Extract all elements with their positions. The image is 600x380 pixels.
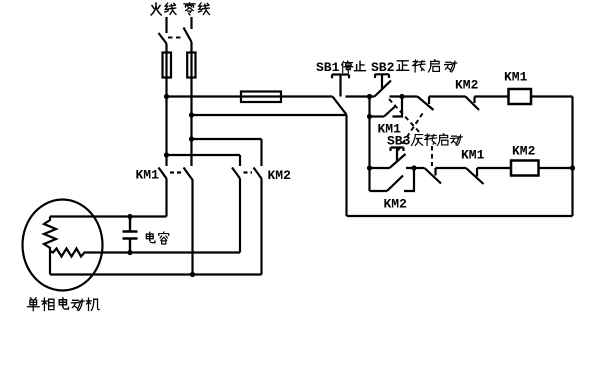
push button SB2 actuator <box>375 74 389 89</box>
push button SB1 actuator <box>332 75 349 97</box>
label SB3反转启动 <box>387 134 462 149</box>
wire coil KM2 to right bus <box>539 167 573 169</box>
label KM2 (main) <box>268 168 292 183</box>
svg-text:SB1: SB1 <box>316 60 340 75</box>
svg-text:SB2: SB2 <box>371 60 395 75</box>
label SB2正转启动 <box>371 60 457 75</box>
label 单相电动机 <box>27 298 99 311</box>
node neutral line3 <box>189 136 194 141</box>
wire KM2-left down <box>239 179 241 253</box>
wire bus segment <box>429 95 466 97</box>
wire KM2-left stub <box>239 155 241 166</box>
wire KM1-left down <box>165 179 167 217</box>
wire SB3-branch vertical <box>368 97 370 192</box>
wire KM1-right down <box>192 179 193 275</box>
svg-text:KM2: KM2 <box>384 197 408 212</box>
wire latch2 row right <box>404 168 414 191</box>
wire neutral to KM2-right <box>192 138 262 140</box>
wire bus to coil KM1 <box>475 95 509 97</box>
wire row2 after SB3 <box>406 167 425 169</box>
wire neutral vertical <box>190 42 192 166</box>
label KM2 (latch) <box>384 197 408 212</box>
capacitor C branch <box>123 217 138 253</box>
wire latch1 row <box>370 115 385 117</box>
svg-text:KM1: KM1 <box>461 148 485 163</box>
push button SB3 NO blade <box>390 154 406 168</box>
label KM1 (interlock row2) <box>461 148 485 163</box>
wire row2 segment <box>436 167 467 169</box>
motor aux winding zigzag <box>50 249 88 257</box>
node capacitor top <box>127 214 132 219</box>
label KM2 (interlock) <box>455 78 479 93</box>
coil KM2 <box>511 161 539 176</box>
label 火线 (live wire) <box>151 3 176 15</box>
node live line4 <box>164 152 169 157</box>
switch QS pole L blade <box>159 33 167 44</box>
wire neutral to control <box>192 114 347 116</box>
node latch KM1 tap <box>399 94 404 99</box>
fuse FU3 (control) <box>241 92 281 103</box>
label KM1 (main) <box>136 168 160 183</box>
switch QS pole L stub <box>165 17 167 33</box>
wire bus after SB1 <box>346 95 375 97</box>
wire coil KM1 to right bus <box>531 95 573 97</box>
wire row2 left <box>370 167 390 169</box>
push button SB1 NC blade <box>333 97 347 115</box>
node right bus row2 <box>570 165 575 170</box>
node capacitor bottom <box>127 250 132 255</box>
fuse FU1 (live) <box>163 53 172 78</box>
node bottom junction <box>190 272 195 277</box>
label 电容 <box>146 232 168 244</box>
push button SB3 actuator <box>391 148 404 162</box>
contact KM1 main right <box>184 168 192 179</box>
contact KM2 main left <box>232 168 240 179</box>
contact SB2 NC (linked) blade <box>425 168 442 184</box>
KM1 main link (dashed) <box>170 171 181 173</box>
wire live to KM2 pair <box>167 154 241 156</box>
mechanical link SB3 to NC (dashed) <box>398 111 425 151</box>
wire motor bottom line <box>50 273 262 275</box>
push button SB2 NO blade <box>375 81 392 97</box>
label KM1 (coil) <box>504 70 528 85</box>
switch QS mechanical link (dashed) <box>168 37 182 39</box>
wire KM2-right stub <box>260 139 262 166</box>
svg-text:KM1: KM1 <box>136 168 160 183</box>
svg-text:KM2: KM2 <box>455 78 479 93</box>
wire motor top line <box>50 215 167 217</box>
node live-bus junction <box>164 94 169 99</box>
node row2 tap left <box>367 165 372 170</box>
label KM1 (latch) <box>378 122 402 137</box>
wire bus after SB2 <box>390 95 418 97</box>
contact KM2 NC interlock blade <box>466 97 480 111</box>
wire row2 to coil KM2 <box>477 167 511 169</box>
contact KM1 main left <box>159 168 167 179</box>
coil KM1 <box>509 89 532 104</box>
KM2 main link (dashed) <box>244 171 253 173</box>
wire control bus top <box>167 95 333 97</box>
label KM2 (coil) <box>512 144 536 159</box>
svg-text:KM2: KM2 <box>512 144 536 159</box>
wire aux line <box>88 251 241 253</box>
contact KM2 main right <box>254 168 262 179</box>
node latch1 tap left <box>367 114 372 119</box>
wire motor internal down <box>49 251 51 275</box>
wire KM2-right down <box>260 179 262 275</box>
contact SB3 NC (linked) blade <box>418 97 434 111</box>
svg-text:KM1: KM1 <box>504 70 528 85</box>
label 零线 (neutral wire) <box>184 3 210 15</box>
wire bottom return bus <box>347 215 573 217</box>
wire latch2 row <box>370 190 388 192</box>
fuse FU2 (neutral) <box>187 53 195 78</box>
motor main winding zigzag <box>44 217 56 252</box>
contact KM2 NO latch blade <box>387 176 403 192</box>
wire right return bus vertical <box>571 97 573 217</box>
switch QS pole N stub <box>190 17 192 29</box>
wire live vertical <box>165 44 167 167</box>
svg-text:KM2: KM2 <box>268 168 292 183</box>
contact KM1 NO latch blade <box>384 106 396 117</box>
label SB1停止 <box>316 60 365 75</box>
mechanical link SB2 to NC (dashed) <box>389 99 432 166</box>
node neutral tap <box>189 112 194 117</box>
wire latch1 row right <box>393 97 403 117</box>
node branch to SB3 row <box>367 94 372 99</box>
wire control left vertical <box>345 115 347 216</box>
motor M frame circle <box>23 200 103 291</box>
switch QS pole N blade <box>184 28 192 43</box>
contact KM1 NC interlock blade <box>466 168 484 184</box>
node latch2 tap <box>411 165 416 170</box>
